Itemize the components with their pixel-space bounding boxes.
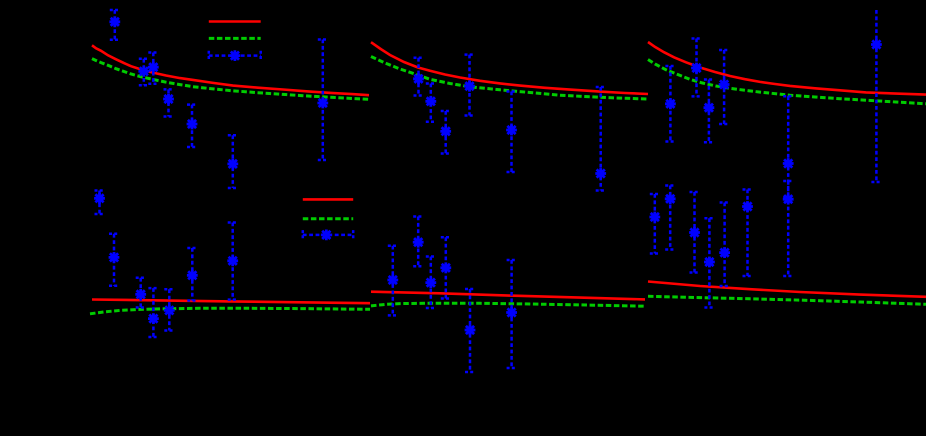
data point marker bottom-right #3 [689, 227, 700, 238]
error bar bottom-right #3 [690, 192, 700, 273]
error bar top-middle #6 [596, 87, 606, 191]
data point marker bottom-middle #6 [506, 307, 517, 318]
error bar bottom-middle #4 [441, 237, 451, 298]
data point marker bottom-left #2 [109, 252, 120, 263]
green dashed fit curve bottom-middle panel [371, 303, 645, 306]
data point marker top-right #2 [691, 63, 702, 74]
green dashed fit curve bottom-left panel [90, 308, 370, 314]
error bar bottom-right #7 [783, 181, 793, 276]
data point marker bottom-middle #2 [413, 237, 424, 248]
data point marker top-right #4 [719, 79, 730, 90]
error bar bottom-left #6 [187, 248, 197, 301]
data point marker bottom-right #6 [742, 201, 753, 212]
data point marker bottom-right #2 [665, 193, 676, 204]
data point marker top-left #5 [187, 119, 198, 130]
data point marker bottom-middle #5 [465, 325, 476, 336]
error bar top-right #2 [692, 39, 702, 97]
error bar bottom-right #1 [650, 194, 660, 254]
data point marker top-left #4 [163, 94, 174, 105]
data point marker bottom-right #4 [704, 257, 715, 268]
data point marker top-left #2 [138, 66, 149, 77]
error bar top-middle #4 [465, 55, 475, 116]
error bar top-right #4 [719, 50, 729, 124]
error bar top-right #5 [783, 96, 793, 197]
green dashed fit curve bottom-right panel [648, 296, 926, 304]
error bar top-middle #5 [507, 92, 517, 173]
error bar top-middle #3 [441, 111, 451, 154]
error bar top-right #6 [871, 10, 881, 182]
data point marker bottom-left #6 [187, 270, 198, 281]
error bar bottom-left #7 [228, 223, 238, 300]
data point marker bottom-left #4 [148, 313, 159, 324]
error bar bottom-middle #5 [465, 289, 475, 372]
legend bottom-left: blue asterisk marker [321, 230, 332, 241]
error bar top-left #7 [318, 40, 328, 161]
error bar bottom-middle #1 [388, 246, 398, 316]
legend bottom-left: green dashed line sample [303, 217, 353, 220]
red solid fit curve top-right panel [648, 42, 926, 95]
error bar bottom-left #5 [164, 289, 174, 330]
error bar top-left #5 [187, 105, 197, 147]
error bar top-right #1 [665, 66, 675, 142]
data point marker bottom-left #1 [94, 193, 105, 204]
red solid fit curve top-left panel [92, 45, 369, 95]
error bar bottom-right #4 [704, 218, 714, 307]
error bar top-middle #2 [426, 84, 436, 122]
green dashed fit curve top-left panel [92, 59, 370, 100]
data point marker top-middle #2 [425, 96, 436, 107]
error bar top-right #3 [704, 80, 714, 143]
data point marker bottom-middle #1 [387, 275, 398, 286]
data point marker bottom-right #5 [719, 247, 730, 258]
data point marker bottom-left #3 [135, 289, 146, 300]
red solid fit curve bottom-left panel [92, 300, 370, 304]
data point marker top-right #3 [704, 102, 715, 113]
data point marker bottom-left #7 [227, 255, 238, 266]
data point marker bottom-middle #4 [440, 262, 451, 273]
data point marker top-middle #4 [464, 81, 475, 92]
error bar bottom-right #6 [743, 190, 753, 277]
data point marker top-right #5 [783, 158, 794, 169]
legend bottom-left: blue errorbar sample line [303, 230, 353, 240]
error bar bottom-left #4 [148, 288, 158, 337]
error bar bottom-left #1 [95, 191, 105, 215]
error bar bottom-right #5 [720, 203, 730, 287]
error bar bottom-middle #6 [507, 260, 517, 368]
red solid fit curve bottom-right panel [648, 282, 926, 297]
data point marker bottom-middle #3 [425, 277, 436, 288]
error bar top-left #4 [164, 89, 174, 116]
legend top-left: red solid line sample [209, 20, 261, 23]
data point marker bottom-left #5 [164, 305, 175, 316]
error bar top-left #3 [148, 53, 158, 84]
data point marker bottom-right #1 [649, 212, 660, 223]
data point marker top-middle #6 [595, 168, 606, 179]
data point marker top-left #7 [317, 98, 328, 109]
error bar bottom-middle #2 [413, 217, 423, 267]
data point marker top-middle #3 [440, 126, 451, 137]
error bar bottom-left #3 [136, 278, 146, 308]
error bar bottom-middle #3 [426, 257, 436, 309]
data point marker top-middle #1 [413, 73, 424, 84]
green dashed fit curve top-right panel [648, 60, 926, 104]
data point marker top-left #1 [109, 16, 120, 27]
red solid fit curve bottom-middle panel [371, 292, 645, 300]
legend top-left: green dashed line sample [209, 37, 261, 40]
data point marker top-left #3 [148, 62, 159, 73]
legend top-left: blue asterisk marker [230, 50, 241, 61]
green dashed fit curve top-middle panel [371, 57, 648, 100]
red solid fit curve top-middle panel [371, 42, 648, 94]
error bar bottom-left #2 [109, 234, 119, 286]
legend top-left: blue errorbar sample line [209, 51, 261, 61]
data point marker top-right #6 [871, 39, 882, 50]
error bar bottom-right #2 [665, 186, 675, 250]
legend bottom-left: red solid line sample [303, 198, 353, 201]
error bar top-left #2 [139, 59, 149, 86]
data point marker bottom-right #7 [783, 194, 794, 205]
data point marker top-left #6 [227, 159, 238, 170]
error bar top-left #1 [110, 10, 120, 40]
error bar top-left #6 [228, 135, 238, 188]
error bar top-middle #1 [414, 58, 424, 96]
data point marker top-middle #5 [506, 125, 517, 136]
data point marker top-right #1 [665, 98, 676, 109]
